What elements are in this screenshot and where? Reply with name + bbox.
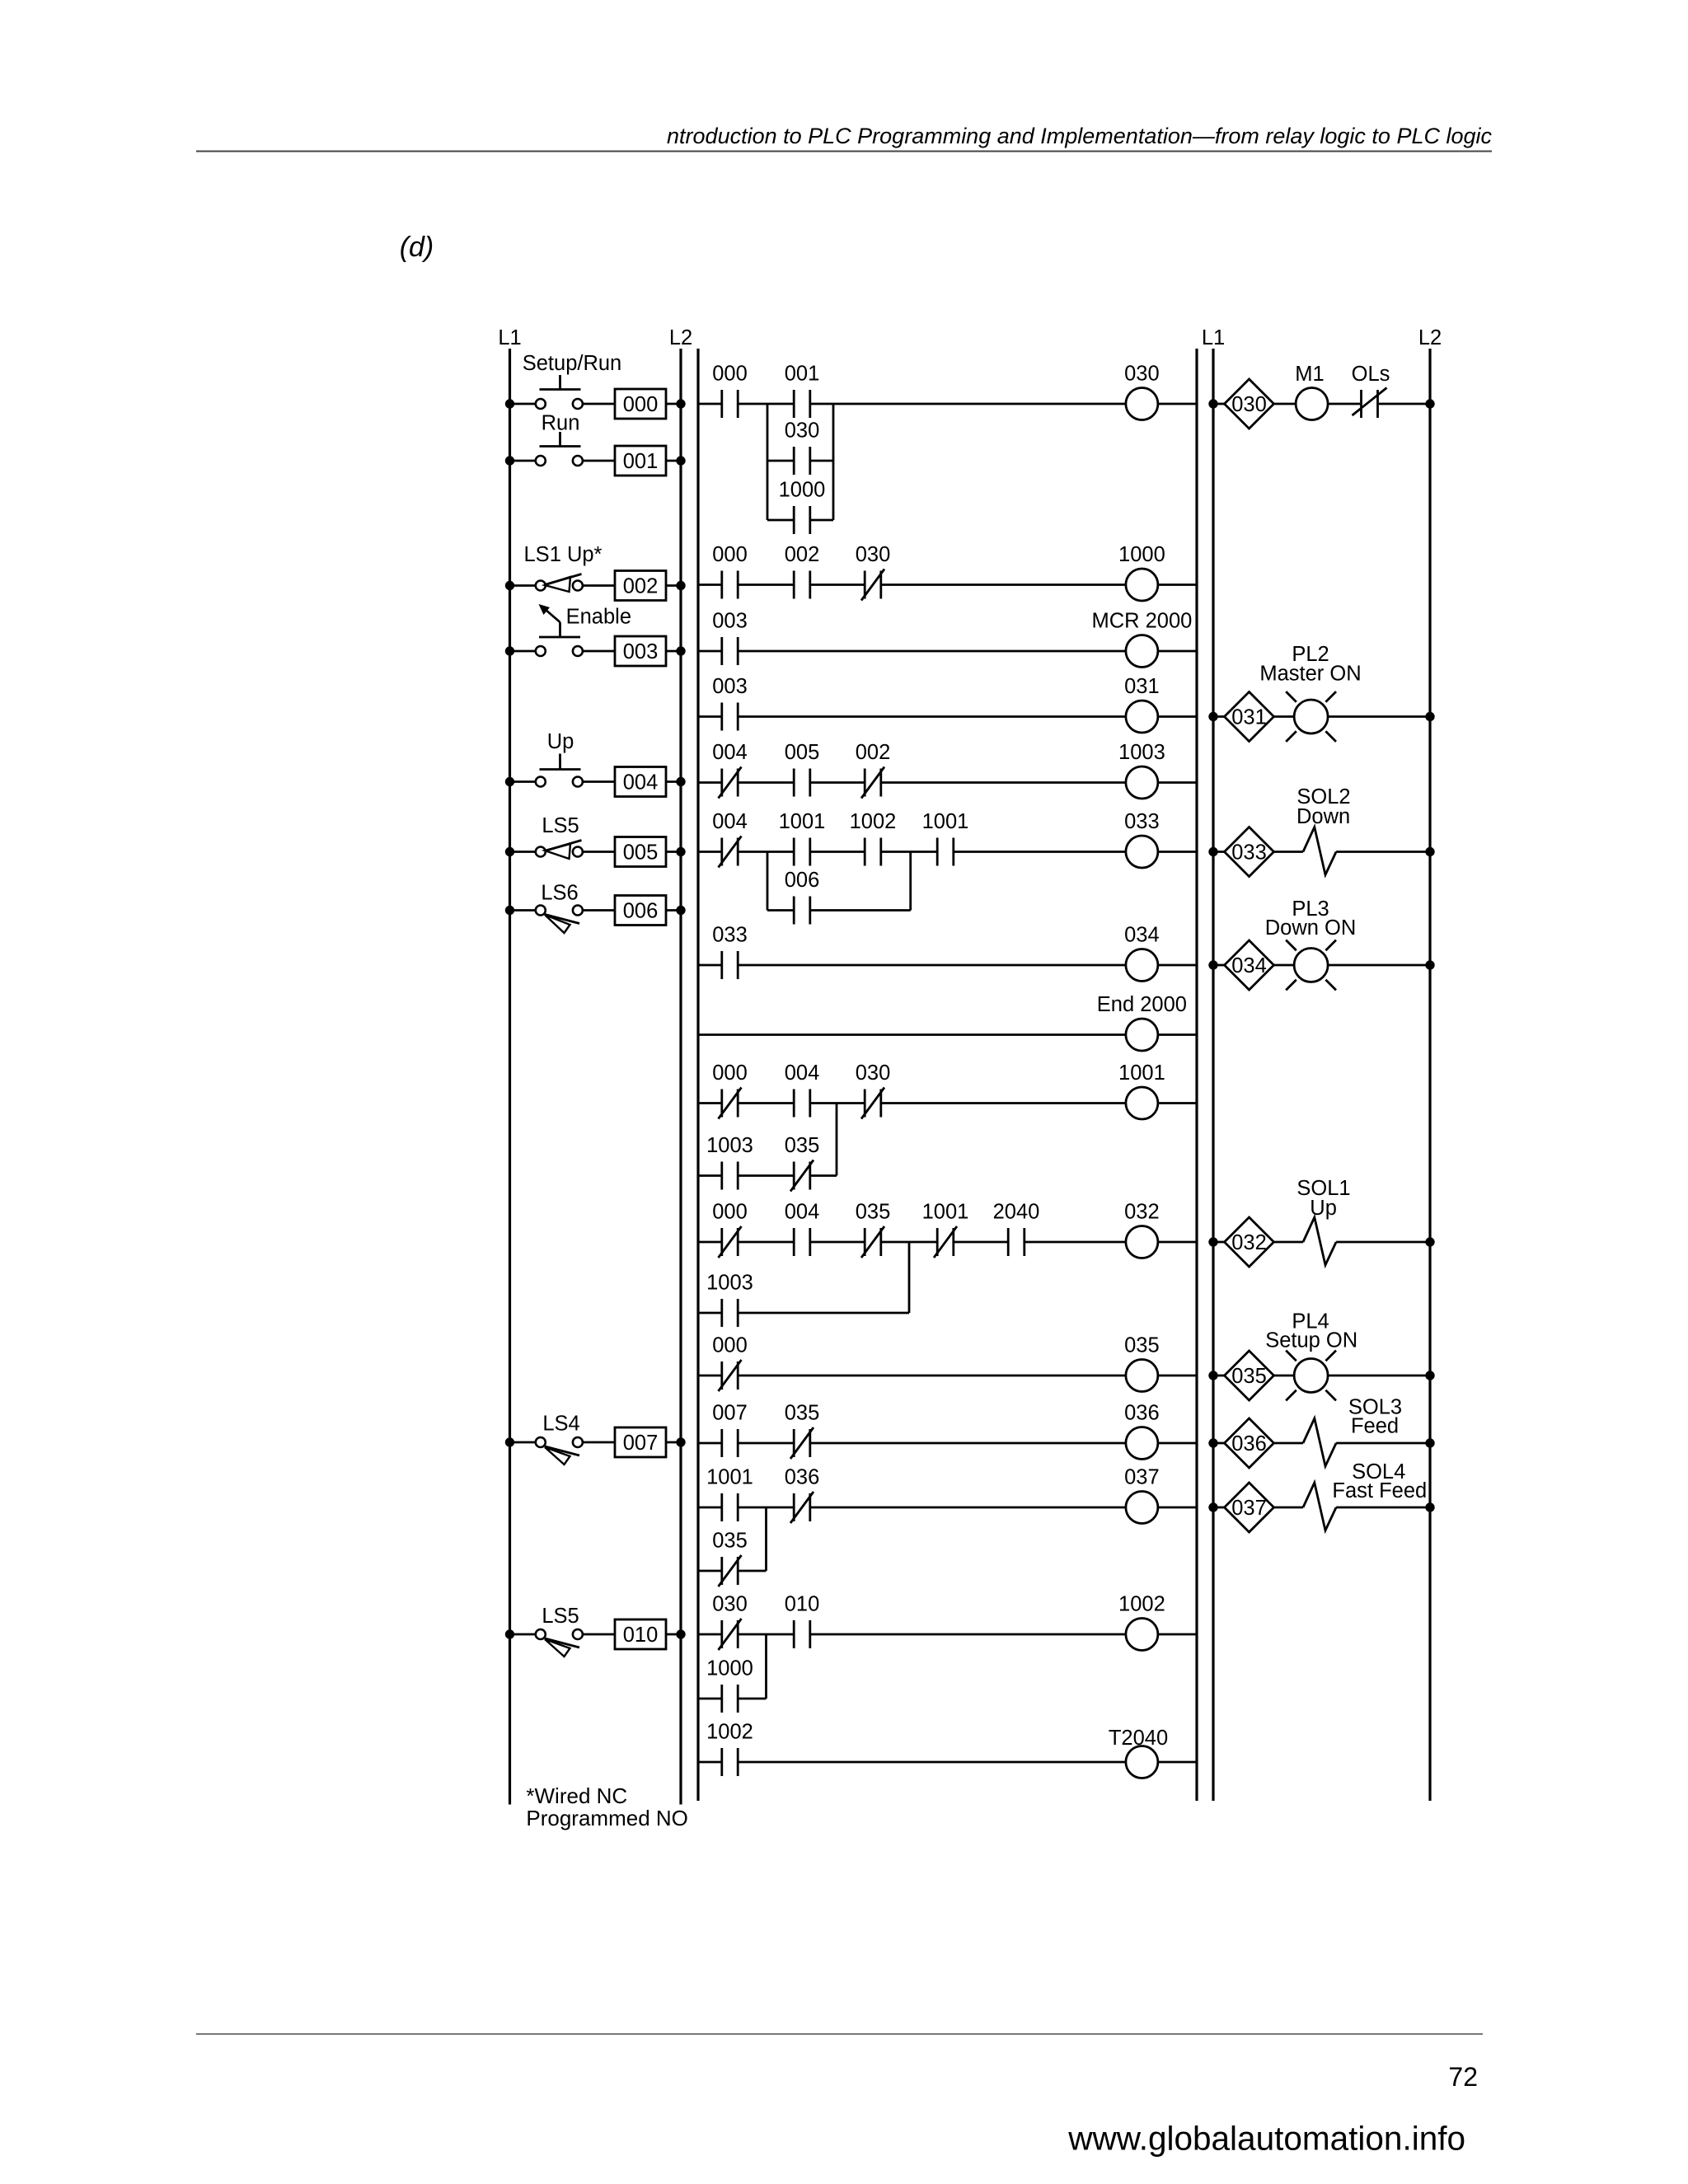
svg-text:030: 030 (712, 1593, 748, 1616)
svg-text:001: 001 (623, 450, 659, 473)
footer rule (196, 2033, 1483, 2035)
svg-text:005: 005 (623, 841, 659, 865)
wire rung 14 (698, 1633, 1197, 1636)
wire rung 13 (698, 1507, 1197, 1509)
svg-text:035: 035 (856, 1201, 891, 1224)
svg-text:036: 036 (785, 1466, 820, 1489)
svg-text:1003: 1003 (1118, 741, 1165, 764)
svg-text:Up: Up (1310, 1197, 1337, 1220)
wire rung 3 (698, 650, 1197, 653)
svg-text:Programmed NO: Programmed NO (526, 1806, 688, 1830)
contact 033 (NO) rung 7 (712, 924, 748, 980)
contact 1003 (NO) branch rung 9 (706, 1134, 753, 1190)
svg-text:1000: 1000 (706, 1657, 753, 1680)
svg-text:L1: L1 (498, 326, 521, 349)
svg-text:L1: L1 (1202, 326, 1225, 349)
contact 1003 (NO) branch rung 10 (706, 1272, 753, 1328)
output diamond 032 (1225, 1217, 1274, 1267)
svg-text:002: 002 (623, 575, 659, 598)
svg-text:1002: 1002 (1118, 1593, 1165, 1616)
svg-text:034: 034 (1124, 924, 1160, 947)
motor starter M1 (1295, 363, 1328, 420)
svg-text:006: 006 (785, 869, 820, 892)
svg-text:035: 035 (712, 1530, 748, 1553)
branch wires 035 parallel rung 13 (698, 1507, 767, 1571)
svg-text:036: 036 (1124, 1402, 1160, 1425)
output diamond 030 (1225, 379, 1274, 429)
svg-text:L2: L2 (1418, 326, 1442, 349)
contact 000 (NC) rung 10 (712, 1201, 748, 1258)
svg-text:035: 035 (785, 1134, 820, 1157)
contact 1001 (NO) rung 13 (706, 1466, 753, 1522)
limit switch LS6, input 006 (505, 881, 686, 933)
wire output rung 037 (1208, 1502, 1434, 1511)
svg-text:033: 033 (712, 924, 748, 947)
svg-text:007: 007 (623, 1432, 659, 1455)
svg-text:030: 030 (856, 543, 891, 566)
svg-text:1000: 1000 (1118, 543, 1165, 566)
svg-text:Fast Feed: Fast Feed (1332, 1479, 1427, 1502)
ladder left power rail (696, 349, 699, 1801)
contact 000 (NO) rung 2 (712, 543, 748, 599)
contact 003 (NO) rung 3 (712, 610, 748, 666)
svg-text:Feed: Feed (1351, 1414, 1399, 1437)
svg-text:034: 034 (1231, 954, 1267, 977)
pilot light PL3 Down ON (1265, 898, 1357, 990)
contact 002 (NO) rung 2 (785, 543, 820, 599)
coil 031 (1124, 675, 1160, 733)
svg-text:1001: 1001 (1118, 1062, 1165, 1085)
svg-text:004: 004 (785, 1201, 820, 1224)
output diamond 033 (1225, 827, 1274, 877)
contact 005 (NO) rung 5 (785, 741, 820, 797)
header rule (196, 151, 1492, 152)
contact 000 (NC) rung 9 (712, 1062, 748, 1119)
svg-text:1003: 1003 (706, 1134, 753, 1157)
svg-text:036: 036 (1231, 1432, 1267, 1455)
wire rung 5 (698, 781, 1197, 784)
svg-text:LS1 Up*: LS1 Up* (524, 543, 603, 566)
svg-text:004: 004 (785, 1062, 820, 1085)
svg-text:007: 007 (712, 1402, 748, 1425)
output diamond 037 (1225, 1483, 1274, 1532)
wire output rung 033 (1208, 847, 1434, 856)
coil 1002 (1118, 1593, 1165, 1651)
wire rung 15 (698, 1761, 1197, 1764)
svg-text:1001: 1001 (779, 810, 826, 833)
wire rung 11 (698, 1375, 1197, 1377)
wire output rung 031 (1208, 712, 1434, 721)
coil 030 (1124, 363, 1160, 420)
wire rung 12 (698, 1442, 1197, 1445)
limit switch LS5, input 005 (505, 814, 686, 867)
svg-text:Master ON: Master ON (1259, 663, 1361, 686)
svg-text:2040: 2040 (993, 1201, 1040, 1224)
svg-text:1000: 1000 (779, 479, 826, 502)
svg-text:1002: 1002 (706, 1721, 753, 1744)
contact 002 (NC) rung 5 (856, 741, 891, 799)
watermark url (1067, 2120, 1465, 2158)
contact 004 (NC) rung 5 (712, 741, 748, 799)
solenoid SOL4 Fast Feed (1303, 1460, 1427, 1530)
wire rung 9 (698, 1102, 1197, 1104)
contact 010 (NO) rung 14 (785, 1593, 820, 1649)
svg-text:030: 030 (1231, 393, 1267, 416)
svg-text:010: 010 (623, 1624, 659, 1647)
contact 036 (NC) rung 13 (785, 1466, 820, 1524)
svg-text:003: 003 (712, 675, 748, 698)
contact 1001 (NO) rung 6b (922, 810, 969, 866)
branch wires 1003/035 parallel (698, 1104, 837, 1176)
L2 rail (input section) (669, 326, 692, 1805)
limit switch LS5, input 010 (505, 1605, 686, 1657)
limit switch LS4, input 007 (505, 1413, 686, 1465)
output diamond 036 (1225, 1418, 1274, 1468)
contact 035 (NC) rung 10 (856, 1201, 891, 1258)
wire output rung 036 (1208, 1438, 1434, 1447)
svg-text:005: 005 (785, 741, 820, 764)
svg-text:035: 035 (785, 1402, 820, 1425)
svg-text:Setup ON: Setup ON (1265, 1329, 1357, 1352)
svg-text:031: 031 (1124, 675, 1160, 698)
pushbutton Up, input 004 (505, 730, 686, 797)
svg-text:End 2000: End 2000 (1097, 993, 1187, 1016)
svg-text:OLs: OLs (1352, 363, 1390, 386)
svg-text:033: 033 (1231, 841, 1267, 865)
contact 000 (NC) rung 11 (712, 1334, 748, 1392)
wire rung 7 (698, 964, 1197, 967)
contact 1002 (NO) rung 15 (706, 1721, 753, 1777)
pushbutton Run, input 001 (505, 412, 686, 476)
svg-text:000: 000 (712, 1201, 748, 1224)
svg-text:Down: Down (1296, 805, 1350, 828)
pilot light PL4 Setup ON (1265, 1310, 1357, 1400)
svg-text:1001: 1001 (922, 1201, 969, 1224)
branch wires rung 1 parallel (767, 404, 833, 520)
svg-text:1003: 1003 (706, 1272, 753, 1295)
coil End 2000 (1097, 993, 1187, 1051)
svg-text:*Wired NC: *Wired NC (526, 1783, 627, 1808)
contact 1001 (NO) rung 6 (779, 810, 826, 866)
solenoid SOL1 Up (1296, 1177, 1350, 1265)
coil 036 (1124, 1402, 1160, 1460)
svg-text:001: 001 (785, 363, 820, 386)
svg-text:030: 030 (1124, 363, 1160, 386)
contact 001 (NO) rung 1 (785, 363, 820, 419)
svg-text:031: 031 (1231, 706, 1267, 729)
coil T2040 (1109, 1727, 1168, 1779)
branch wires 006 parallel (767, 852, 911, 911)
output diamond 035 (1225, 1351, 1274, 1400)
coil 1001 (1118, 1062, 1165, 1119)
page number (1448, 2062, 1478, 2092)
coil 037 (1124, 1466, 1160, 1524)
svg-text:000: 000 (712, 543, 748, 566)
pushbutton Setup/Run, input 000 (505, 352, 686, 419)
svg-text:000: 000 (712, 1062, 748, 1085)
wire output rung 030 (1208, 399, 1434, 408)
svg-text:(d): (d) (400, 232, 434, 263)
contact 1000 (NO) branch rung 14 (706, 1657, 753, 1713)
svg-text:030: 030 (785, 419, 820, 443)
svg-text:000: 000 (712, 1334, 748, 1357)
wire rung 6 (698, 851, 1197, 853)
contact 2040 (NO) rung 10 (993, 1201, 1040, 1257)
coil 035 (1124, 1334, 1160, 1392)
wire rung 8 (End) (698, 1033, 1197, 1036)
coil 032 (1124, 1201, 1160, 1258)
output diamond 034 (1225, 940, 1274, 990)
svg-text:Setup/Run: Setup/Run (523, 352, 622, 375)
svg-text:LS5: LS5 (542, 814, 579, 837)
contact 000 (NO) rung 1 (712, 363, 748, 419)
svg-text:003: 003 (712, 610, 748, 633)
contact 030 (NC) rung 14 (712, 1593, 748, 1651)
wire output rung 035 (1208, 1371, 1434, 1380)
coil MCR 2000 (1091, 610, 1192, 668)
svg-text:72: 72 (1448, 2062, 1478, 2092)
svg-text:030: 030 (856, 1062, 891, 1085)
contact 004 (NO) rung 9 (785, 1062, 820, 1118)
svg-text:Run: Run (542, 412, 580, 435)
wire rung 2 (698, 583, 1197, 586)
contact 035 (NC) rung 12 (785, 1402, 820, 1460)
svg-text:L2: L2 (669, 326, 692, 349)
svg-text:000: 000 (623, 393, 659, 416)
contact 035 (NC) branch rung 13 (712, 1530, 748, 1587)
contact 004 (NO) rung 10 (785, 1201, 820, 1257)
svg-text:032: 032 (1124, 1201, 1160, 1224)
svg-text:Up: Up (547, 730, 574, 753)
svg-text:002: 002 (856, 741, 891, 764)
overload contact OLs (1352, 363, 1390, 418)
branch wires 1003 parallel rung 10 (698, 1242, 909, 1313)
contact 1002 (NO) rung 6 (850, 810, 897, 866)
wire rung 1 (698, 403, 1197, 405)
contact 1000 (NO) branch (779, 479, 826, 535)
contact 003 (NO) rung 4 (712, 675, 748, 731)
svg-text:004: 004 (712, 741, 748, 764)
svg-text:LS6: LS6 (541, 881, 578, 904)
limit switch LS1 Up*, input 002 (505, 543, 686, 601)
footnote (526, 1783, 688, 1830)
svg-text:033: 033 (1124, 810, 1160, 833)
svg-text:1001: 1001 (922, 810, 969, 833)
contact 030 (NC) rung 2 (856, 543, 891, 601)
contact 035 (NC) branch rung 9 (785, 1134, 820, 1192)
svg-text:000: 000 (712, 363, 748, 386)
svg-text:ntroduction to PLC Programming: ntroduction to PLC Programming and Imple… (667, 124, 1492, 148)
branch wires 1000 parallel rung 14 (698, 1634, 767, 1699)
contact 030 (NO) seal-in branch (785, 419, 820, 476)
svg-text:003: 003 (623, 640, 659, 663)
svg-text:1002: 1002 (850, 810, 897, 833)
solenoid SOL2 Down (1296, 785, 1351, 875)
L1 rail (output section) (1202, 326, 1225, 1801)
svg-text:LS5: LS5 (542, 1605, 579, 1628)
contact 004 (NC) rung 6 (712, 810, 748, 868)
ladder right power rail (1195, 349, 1198, 1801)
wire output rung 032 (1208, 1237, 1434, 1246)
svg-text:006: 006 (623, 900, 659, 923)
contact 030 (NC) rung 9 (856, 1062, 891, 1119)
svg-text:035: 035 (1231, 1365, 1267, 1388)
svg-text:035: 035 (1124, 1334, 1160, 1357)
coil 034 (1124, 924, 1160, 982)
svg-text:004: 004 (712, 810, 748, 833)
header running title (667, 124, 1492, 148)
coil 033 (1124, 810, 1160, 868)
L2 rail (output section) (1418, 326, 1442, 1801)
svg-text:T2040: T2040 (1109, 1727, 1168, 1750)
wire output rung 034 (1208, 960, 1434, 969)
contact 007 (NO) rung 12 (712, 1402, 748, 1458)
wire rung 4 (698, 715, 1197, 718)
svg-text:LS4: LS4 (542, 1413, 579, 1436)
pilot light PL2 Master ON (1259, 643, 1361, 742)
svg-text:037: 037 (1231, 1497, 1267, 1520)
figure label (d) (400, 232, 434, 263)
svg-text:010: 010 (785, 1593, 820, 1616)
contact 006 (NO) branch (785, 869, 820, 925)
selector Enable, input 003 (505, 604, 686, 666)
svg-text:Enable: Enable (566, 605, 631, 628)
svg-text:004: 004 (623, 771, 659, 794)
solenoid SOL3 Feed (1303, 1395, 1402, 1466)
svg-text:M1: M1 (1295, 363, 1324, 386)
coil 1003 (1118, 741, 1165, 799)
wire rung 10 (698, 1241, 1197, 1244)
svg-text:MCR 2000: MCR 2000 (1091, 610, 1192, 633)
svg-text:Down ON: Down ON (1265, 916, 1357, 940)
svg-text:037: 037 (1124, 1466, 1160, 1489)
svg-text:002: 002 (785, 543, 820, 566)
L1 rail (input section) (498, 326, 521, 1805)
output diamond 031 (1225, 692, 1274, 742)
svg-text:www.globalautomation.info: www.globalautomation.info (1067, 2120, 1465, 2158)
coil 1000 (1118, 543, 1165, 601)
svg-text:032: 032 (1231, 1231, 1267, 1254)
contact 1001 (NC) rung 10 (922, 1201, 969, 1258)
svg-text:1001: 1001 (706, 1466, 753, 1489)
